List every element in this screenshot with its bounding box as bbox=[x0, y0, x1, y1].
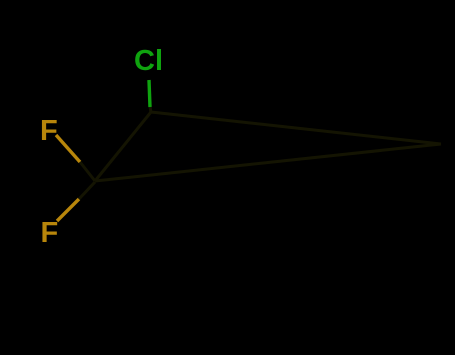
svg-text:Cl: Cl bbox=[134, 45, 163, 77]
wire: C-F lower bond fluorine half bbox=[57, 199, 79, 221]
wire: C-F upper bond fluorine half bbox=[56, 135, 80, 162]
wire: C-Cl bond carbon half bbox=[150, 106, 151, 113]
wire: ring edge C2-C3 bbox=[95, 144, 441, 181]
wire: ring edge C1-C3 bbox=[151, 112, 441, 144]
wire: C-F upper bond carbon half bbox=[80, 162, 95, 181]
svg-text:F: F bbox=[40, 115, 58, 147]
wire: C-F lower bond carbon half bbox=[79, 182, 95, 199]
wire: C-Cl bond chlorine half bbox=[149, 80, 150, 107]
wire: ring edge C1-C2 bbox=[95, 112, 151, 181]
svg-text:F: F bbox=[41, 217, 59, 249]
